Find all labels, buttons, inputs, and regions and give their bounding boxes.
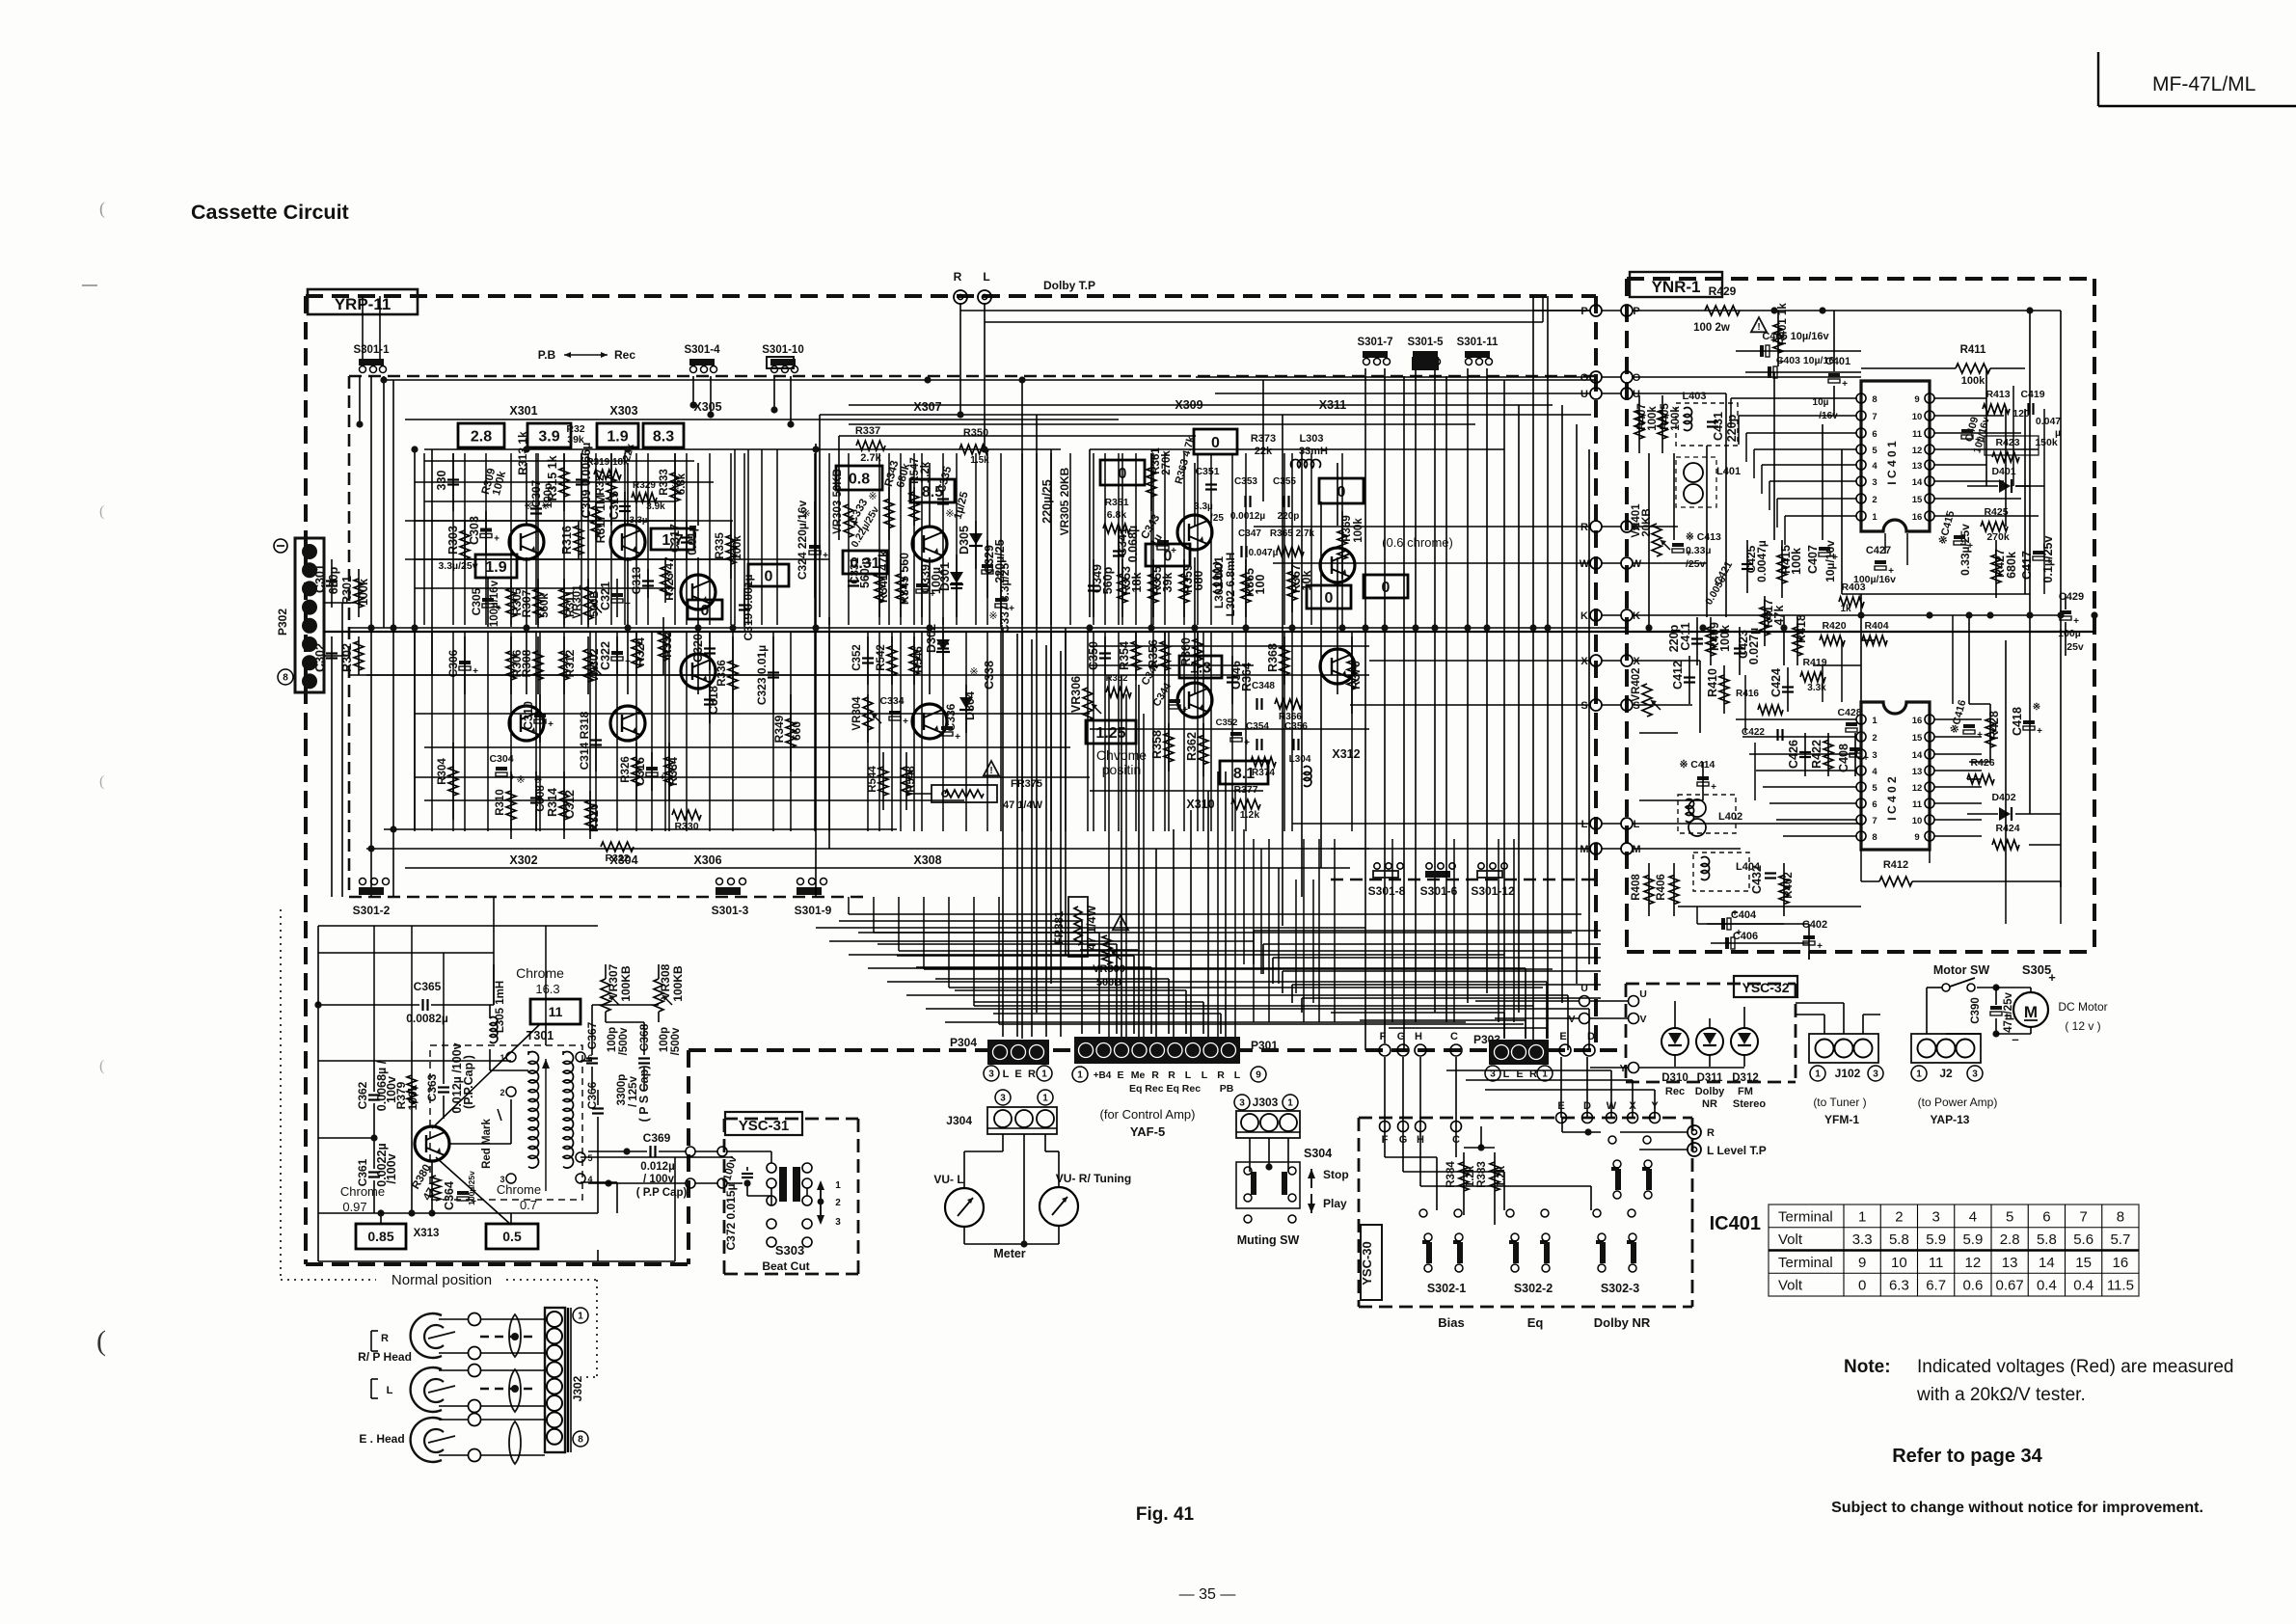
- wire: [668, 631, 670, 831]
- wire: [1207, 791, 1209, 1037]
- svg-text:/500v: /500v: [618, 1027, 630, 1055]
- voltage box 1.9 lower: [475, 555, 517, 578]
- svg-text:Volt: Volt: [1778, 1232, 1803, 1248]
- svg-text:100µ/16v: 100µ/16v: [489, 580, 500, 627]
- svg-text:3: 3: [1239, 1098, 1245, 1109]
- wire: [814, 453, 816, 625]
- svg-text:13: 13: [1912, 461, 1923, 472]
- node C: [1450, 1044, 1462, 1056]
- wire: [1455, 1057, 1457, 1126]
- svg-text:+: +: [1770, 336, 1776, 346]
- test point R: [954, 290, 967, 304]
- test point R Level: [1688, 1125, 1701, 1139]
- diode lamp D311: [1696, 1028, 1723, 1055]
- svg-text:14: 14: [1912, 750, 1923, 761]
- svg-text:R368: R368: [1266, 643, 1280, 672]
- svg-text:100: 100: [1254, 575, 1267, 595]
- wire: [415, 776, 1090, 778]
- wire junction dots left block: [380, 376, 387, 383]
- svg-text:4: 4: [1969, 1208, 1977, 1225]
- wire: [900, 631, 902, 831]
- wire: [1312, 880, 1314, 1003]
- svg-text:S301-11: S301-11: [1457, 337, 1499, 348]
- wire: [1090, 664, 1254, 666]
- node R: [1590, 521, 1602, 532]
- svg-text:T301: T301: [527, 1029, 554, 1042]
- svg-text:S301-6: S301-6: [1420, 884, 1458, 898]
- wire: [1090, 790, 1263, 792]
- svg-text:5: 5: [587, 1153, 592, 1163]
- capacitor C306: [464, 636, 466, 694]
- wire: [414, 631, 416, 831]
- svg-text:/500v: /500v: [670, 1027, 682, 1055]
- wire: [1986, 480, 2004, 482]
- svg-text:L: L: [983, 270, 989, 284]
- wire: [874, 932, 1572, 934]
- svg-text:5: 5: [2006, 1208, 2013, 1225]
- wire: [1756, 770, 1818, 771]
- resistor R320: [589, 791, 591, 839]
- svg-text:with a 20kΩ/V tester.: with a 20kΩ/V tester.: [1916, 1385, 2086, 1405]
- wire: [452, 631, 454, 831]
- svg-text:※ C414: ※ C414: [1680, 759, 1715, 771]
- svg-text:※: ※: [516, 774, 525, 786]
- wire: [1185, 990, 1187, 1034]
- resistor R324: [635, 632, 637, 675]
- wire: [1118, 453, 1120, 625]
- resistor R306: [510, 636, 512, 694]
- wire: [1419, 1057, 1421, 1126]
- capacitor C314 R318: [595, 714, 597, 771]
- wire top P line: [960, 310, 1590, 311]
- svg-text:0.01µ: 0.01µ: [686, 525, 699, 555]
- svg-text:660: 660: [790, 721, 803, 741]
- svg-text:L: L: [1581, 819, 1588, 830]
- capacitor C305 100u: [487, 579, 489, 627]
- svg-text:R301: R301: [340, 576, 354, 605]
- pot VR309 500B: [1102, 935, 1112, 964]
- node K: [1590, 609, 1602, 621]
- wire: [415, 481, 714, 483]
- svg-text:R548: R548: [905, 766, 917, 793]
- wire: [1498, 839, 1499, 1022]
- wire: [1968, 615, 1970, 704]
- svg-text:+: +: [1171, 546, 1176, 556]
- svg-text:1.9: 1.9: [607, 428, 628, 445]
- resistor R307 560k: [537, 579, 539, 628]
- svg-text:3.3k: 3.3k: [1807, 683, 1826, 693]
- switch S301-8: [1373, 871, 1398, 878]
- svg-text:6: 6: [2042, 1208, 2050, 1225]
- wire: [1292, 984, 1601, 986]
- wire: [942, 631, 944, 831]
- connector P301: [1074, 1037, 1240, 1064]
- wire X307 frame: [820, 414, 1591, 416]
- svg-text:Rec: Rec: [1665, 1086, 1685, 1097]
- svg-text:※: ※: [868, 491, 877, 502]
- svg-text:+: +: [1842, 379, 1848, 390]
- wire: [1245, 453, 1247, 625]
- svg-text:※: ※: [2033, 702, 2040, 713]
- voltage box 0 mid: [1146, 544, 1190, 566]
- svg-text:39k: 39k: [567, 434, 584, 446]
- wire: [1310, 453, 1312, 625]
- svg-text:S301-1: S301-1: [353, 344, 390, 356]
- svg-text:8: 8: [2117, 1208, 2124, 1225]
- wire vertical: [1588, 449, 1590, 964]
- svg-text:R332: R332: [662, 631, 674, 658]
- wire: [1152, 453, 1154, 625]
- svg-text:+: +: [548, 719, 554, 730]
- node Y ysc32: [1629, 1063, 1639, 1073]
- svg-text:L303: L303: [1299, 433, 1323, 445]
- svg-text:D301: D301: [938, 562, 952, 591]
- voltage box 0.31: [843, 551, 887, 574]
- svg-text:P: P: [1580, 306, 1587, 317]
- wire: [1861, 639, 1875, 641]
- svg-text:0.0012µ: 0.0012µ: [1230, 511, 1266, 522]
- wire: [921, 453, 923, 625]
- svg-text:Cassette Circuit: Cassette Circuit: [191, 201, 349, 224]
- svg-text:18k: 18k: [1130, 573, 1144, 593]
- wire: [2015, 485, 2030, 487]
- svg-text:Indicated voltages (Red) are m: Indicated voltages (Red) are measured: [1917, 1357, 2233, 1377]
- svg-text:C324 220µ/16v: C324 220µ/16v: [796, 501, 809, 581]
- svg-text:2: 2: [500, 1088, 504, 1097]
- wire: [1220, 1014, 1222, 1034]
- svg-text:R420: R420: [1822, 620, 1846, 632]
- wire: [1254, 930, 1601, 932]
- transistor Q X311 upper: [1320, 548, 1355, 582]
- IC401 pin 8: [1856, 393, 1866, 403]
- svg-text:+: +: [903, 717, 908, 727]
- wire: [664, 631, 666, 831]
- svg-text:220p: 220p: [1725, 414, 1739, 442]
- wire: [1648, 453, 1650, 540]
- svg-text:0.85: 0.85: [367, 1229, 393, 1244]
- svg-text:YAF-5: YAF-5: [1130, 1124, 1165, 1139]
- svg-text:7: 7: [1872, 412, 1877, 422]
- svg-text:C352: C352: [1216, 717, 1238, 728]
- capacitor C352: [867, 636, 869, 685]
- wire: [1118, 631, 1120, 831]
- svg-text:C364: C364: [443, 1181, 456, 1210]
- svg-text:IC401: IC401: [1710, 1213, 1761, 1234]
- wire P302 long feeds: [341, 603, 343, 897]
- svg-text:R404: R404: [1864, 620, 1888, 632]
- wire: [2060, 311, 2062, 887]
- module YRP-11 inner dashed boundary: [349, 375, 1596, 378]
- svg-text:0.1µ/25v: 0.1µ/25v: [2041, 536, 2055, 583]
- svg-text:2.8: 2.8: [2000, 1232, 2020, 1248]
- svg-text:1.2k: 1.2k: [1496, 1165, 1507, 1187]
- svg-text:560p: 560p: [1101, 566, 1115, 594]
- resistor R370: [1351, 636, 1353, 714]
- svg-text:J2: J2: [1939, 1067, 1953, 1080]
- wire: [1283, 970, 1601, 972]
- svg-text:6.8k: 6.8k: [1107, 509, 1127, 521]
- wire: [1673, 453, 1675, 540]
- wire: [2024, 409, 2026, 594]
- wire: [965, 631, 967, 831]
- node U: [1590, 388, 1602, 399]
- capacitor C309 0.0066u: [581, 453, 582, 511]
- transistor chrome oscillator: [415, 1126, 449, 1161]
- wire: [2005, 640, 2007, 881]
- transistor Q X312: [1320, 649, 1355, 684]
- module YSC-32 dashed box: [1626, 983, 1796, 986]
- svg-text:R336: R336: [716, 660, 728, 687]
- svg-text:1: 1: [1872, 512, 1877, 523]
- IC402 pin 6: [1856, 798, 1866, 808]
- meter VU-R/Tuning: [1040, 1187, 1078, 1226]
- wire: [1093, 453, 1094, 625]
- resistor R319 18k: [594, 470, 621, 479]
- svg-text:Meter: Meter: [993, 1247, 1025, 1260]
- node C row2: [1451, 1122, 1462, 1132]
- svg-text:Dolby: Dolby: [1695, 1086, 1725, 1097]
- page id box MF-47L/ML: [2097, 52, 2099, 106]
- wire: [761, 449, 763, 625]
- svg-text:4: 4: [1872, 461, 1877, 472]
- wire: [1384, 1057, 1386, 1126]
- connector J302: [545, 1308, 565, 1452]
- svg-text:Y: Y: [1619, 1063, 1626, 1074]
- voltage box 1.9: [597, 423, 638, 447]
- resistor R305: [510, 579, 512, 627]
- svg-text:M: M: [2024, 1003, 2038, 1021]
- voltage box 0 X309a: [1194, 429, 1237, 454]
- svg-text:L Level T.P: L Level T.P: [1707, 1144, 1767, 1157]
- svg-text:1: 1: [1815, 1069, 1821, 1080]
- capacitor C319 0.001u: [743, 588, 745, 627]
- wire vertical: [1262, 380, 1264, 501]
- letters U V on left of YSC-32: [1580, 996, 1590, 1007]
- wire vertical: [1576, 424, 1578, 984]
- wire: [1031, 639, 1033, 1037]
- svg-text:7: 7: [2079, 1208, 2087, 1225]
- svg-text:R363 4.7k: R363 4.7k: [1174, 434, 1198, 485]
- svg-text:C318: C318: [707, 686, 720, 715]
- svg-text:Bias: Bias: [1438, 1315, 1464, 1330]
- wire: [1016, 634, 1018, 1037]
- svg-text:0.33µ/25v: 0.33µ/25v: [1958, 524, 1972, 576]
- svg-text:R406: R406: [1656, 874, 1667, 901]
- svg-text:0: 0: [765, 568, 773, 584]
- IC401 pin 2: [1856, 494, 1866, 503]
- svg-text:Volt: Volt: [1778, 1278, 1803, 1294]
- wire: [1225, 771, 1227, 1037]
- switch S301-10: [770, 359, 796, 365]
- wire: [1763, 786, 1818, 788]
- wire: [1168, 631, 1170, 831]
- svg-text:7: 7: [1872, 816, 1877, 826]
- IC401 pin 9: [1925, 393, 1934, 403]
- svg-text:O: O: [1580, 372, 1589, 384]
- wire vertical: [526, 463, 527, 526]
- wire: [1985, 397, 1987, 399]
- resistor R544: [882, 752, 884, 810]
- svg-text:C: C: [1452, 1134, 1460, 1146]
- svg-text:+: +: [1182, 705, 1188, 716]
- svg-text:X: X: [1633, 656, 1640, 667]
- svg-text:R362: R362: [1185, 732, 1199, 761]
- svg-text:Eq Rec Eq Rec: Eq Rec Eq Rec: [1129, 1083, 1201, 1095]
- switch S302-1: [1426, 1242, 1432, 1263]
- test point L: [978, 290, 991, 304]
- wire: [891, 631, 893, 831]
- connector P302: [295, 538, 324, 692]
- svg-text:R350: R350: [963, 427, 988, 439]
- wire: [485, 453, 487, 625]
- wire: [772, 631, 774, 831]
- wire: [1822, 665, 1823, 702]
- svg-text:R546: R546: [913, 646, 925, 673]
- capacitor C317 0.01u: [686, 521, 688, 559]
- svg-text:C428: C428: [1837, 707, 1861, 718]
- R/P head L coil: [411, 1367, 442, 1412]
- wire: [1402, 1057, 1404, 1126]
- wire: [1884, 533, 1886, 554]
- wire: [848, 453, 850, 625]
- svg-text:+: +: [930, 589, 935, 600]
- svg-text:C369: C369: [643, 1131, 671, 1145]
- wire: [1135, 453, 1137, 625]
- wire: [616, 631, 618, 831]
- resistor R327: [610, 453, 612, 526]
- svg-text:0.047µ: 0.047µ: [1249, 548, 1279, 558]
- svg-text:0.6: 0.6: [1962, 1278, 1983, 1294]
- svg-text:G: G: [1399, 1134, 1408, 1146]
- svg-text:S303: S303: [775, 1243, 804, 1258]
- voltage box 0.85: [356, 1224, 406, 1249]
- svg-text:R: R: [1217, 1069, 1225, 1081]
- wire: [828, 631, 830, 831]
- wire vertical: [1194, 463, 1196, 526]
- svg-text:4: 4: [1872, 767, 1877, 777]
- node Y: [1650, 1113, 1661, 1123]
- IC402 pin 15: [1925, 732, 1934, 742]
- module YSC-31 dashed box: [724, 1118, 858, 1121]
- node P: [1590, 305, 1602, 316]
- fuse FR381: [1068, 897, 1088, 957]
- resistor R335 100k: [730, 521, 732, 579]
- svg-text:14: 14: [2039, 1255, 2055, 1271]
- voltage box 0 X305: [748, 564, 789, 586]
- wire: [2029, 844, 2061, 846]
- letters E D on dashed line: [1559, 1044, 1571, 1056]
- svg-text:Beat Cut: Beat Cut: [762, 1259, 809, 1273]
- svg-text:(: (: [99, 199, 105, 219]
- svg-text:Terminal: Terminal: [1778, 1208, 1833, 1225]
- svg-text:100k: 100k: [1647, 406, 1659, 431]
- IC401 pin 7: [1856, 411, 1866, 420]
- wire: [1513, 839, 1515, 1022]
- svg-text:R423: R423: [1995, 437, 2019, 448]
- wire: [1253, 839, 1255, 1022]
- svg-text:C351: C351: [1195, 466, 1219, 477]
- resistor R326: [635, 743, 637, 800]
- svg-text:560k: 560k: [539, 593, 551, 618]
- voltage box 11: [530, 999, 581, 1024]
- wire: [635, 631, 637, 831]
- svg-text:L: L: [387, 1385, 393, 1396]
- svg-text:S301-7: S301-7: [1357, 337, 1392, 348]
- svg-text:J303: J303: [1253, 1096, 1279, 1109]
- svg-text:1: 1: [1077, 1070, 1083, 1081]
- wire: [1985, 368, 1987, 486]
- svg-text:C403 10µ/16: C403 10µ/16: [1776, 355, 1835, 366]
- wire: [887, 981, 1547, 983]
- transistor Q X305 a: [681, 575, 716, 609]
- wire: [581, 453, 582, 625]
- svg-text:100 2w: 100 2w: [1693, 322, 1730, 334]
- capacitor C303: [485, 511, 487, 555]
- switch S302-3: [1600, 1242, 1606, 1263]
- wire: [829, 940, 1254, 942]
- wire: [674, 453, 676, 625]
- svg-text:C322: C322: [599, 641, 612, 670]
- svg-text:G: G: [1397, 1031, 1406, 1042]
- svg-text:330: 330: [435, 471, 448, 491]
- svg-text:10: 10: [1912, 412, 1923, 422]
- svg-text:100p: 100p: [659, 1027, 670, 1052]
- capacitor C310: [539, 694, 541, 743]
- wire: [563, 453, 565, 625]
- svg-text:11: 11: [1912, 429, 1923, 440]
- wire: [1273, 957, 1601, 959]
- wires J304 to meters: [1002, 1134, 1004, 1151]
- wire E D drops: [1560, 1057, 1562, 1118]
- switch S301-12: [1477, 871, 1502, 878]
- wire: [1069, 453, 1071, 625]
- svg-text:R324: R324: [634, 637, 647, 666]
- resistor R548: [905, 752, 907, 810]
- svg-text:R413: R413: [1985, 389, 2010, 400]
- capacitor C315: [624, 492, 626, 526]
- wire: [747, 449, 749, 625]
- wire: [1351, 631, 1353, 831]
- wire: [790, 631, 792, 831]
- svg-text:3: 3: [1873, 1069, 1878, 1080]
- module YRP-11 dashed boundary: [306, 294, 1596, 298]
- IC401 pin 12: [1925, 445, 1934, 454]
- svg-text:11: 11: [1912, 799, 1923, 810]
- diode D301: [956, 555, 958, 617]
- svg-text:C418: C418: [2011, 707, 2024, 736]
- wire: [686, 453, 688, 625]
- svg-text:0.047: 0.047: [2036, 416, 2061, 427]
- node G: [1397, 1044, 1409, 1056]
- svg-text:+: +: [2048, 970, 2056, 985]
- wire vertical: [1561, 405, 1563, 1003]
- wire W X Y drops: [1610, 1070, 1612, 1118]
- svg-text:S301-4: S301-4: [684, 344, 720, 356]
- node O: [1590, 371, 1602, 383]
- svg-text:C: C: [1450, 1031, 1458, 1042]
- resistor R350 1.5k: [959, 445, 988, 454]
- wire: [1164, 453, 1166, 625]
- svg-text:9: 9: [1914, 394, 1919, 405]
- svg-text:H: H: [1415, 1031, 1422, 1042]
- svg-text:R429: R429: [1709, 284, 1737, 298]
- wire: [1706, 446, 1708, 617]
- svg-text:U: U: [1639, 988, 1647, 1000]
- svg-text:YFM-1: YFM-1: [1824, 1113, 1859, 1126]
- svg-text:3: 3: [1972, 1069, 1978, 1080]
- wire: [709, 453, 711, 625]
- wire: [2029, 311, 2031, 615]
